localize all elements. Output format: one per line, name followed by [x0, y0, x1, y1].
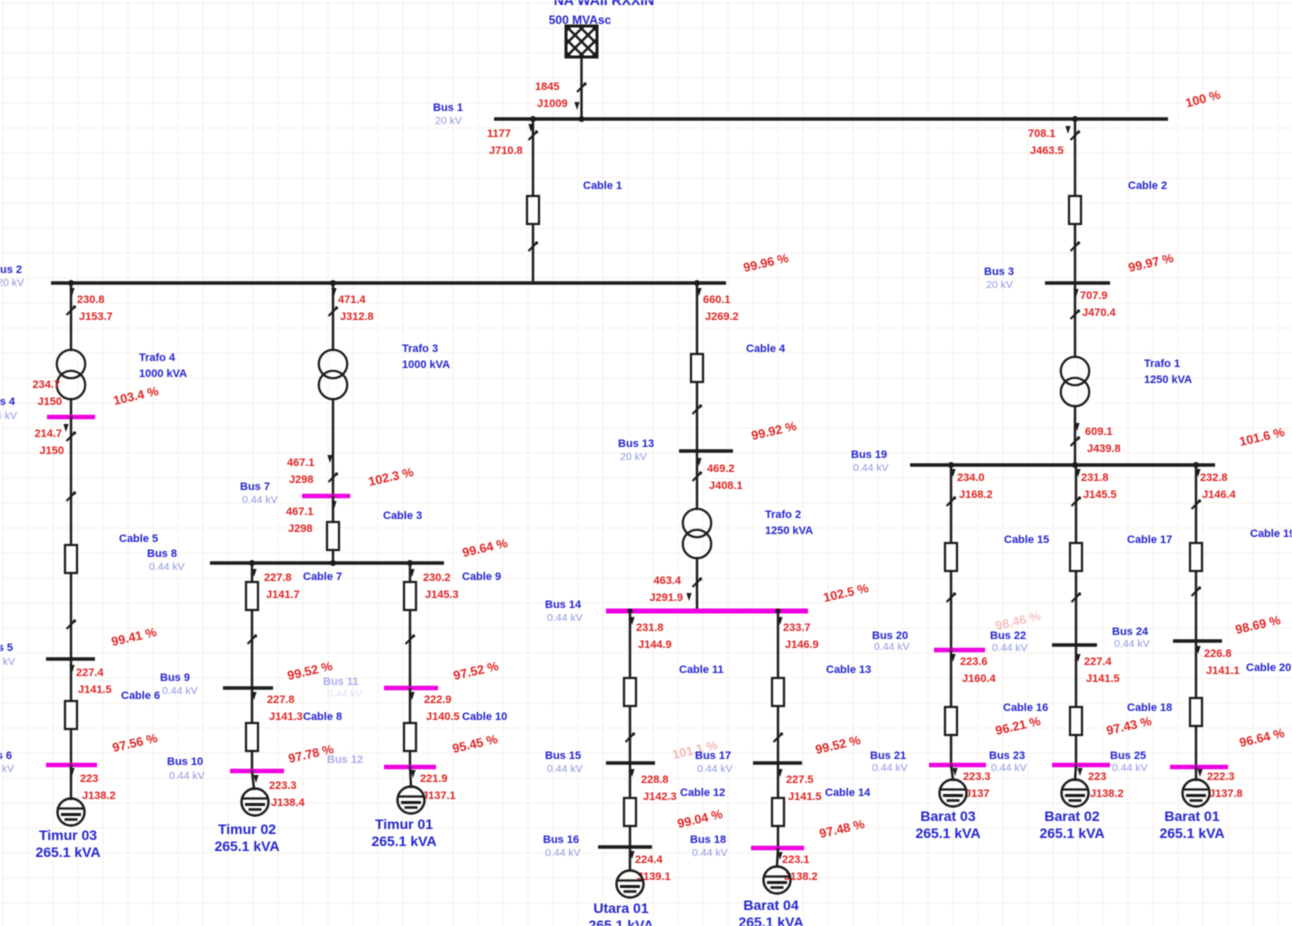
svg-text:Bus 22: Bus 22: [990, 630, 1026, 642]
wire Bus 17 to Cable 14: [777, 763, 779, 812]
external grid symbol: [527, 26, 688, 57]
svg-text:Bus 17: Bus 17: [695, 750, 731, 762]
svg-text:J291.9: J291.9: [649, 592, 683, 604]
cable Cable 15: [945, 543, 957, 571]
wire Trafo 2 to Bus 14: [696, 558, 698, 611]
wire Bus 3 stub: [1074, 283, 1076, 292]
svg-text:223: 223: [1088, 771, 1106, 783]
svg-text:Bus 3: Bus 3: [984, 266, 1014, 278]
svg-text:Bus 14: Bus 14: [545, 599, 582, 611]
svg-text:J141.3: J141.3: [269, 711, 303, 723]
bus Bus 7 (0.44 kV, overloaded): [302, 494, 350, 499]
flow arrow: [777, 852, 782, 860]
wire Bus 20 to Cable 16: [950, 650, 952, 721]
svg-text:J298: J298: [288, 523, 312, 535]
switch Trafo 3 HV: [329, 306, 339, 316]
svg-text:J150: J150: [38, 396, 62, 408]
svg-text:0.44 kV: 0.44 kV: [169, 770, 205, 782]
switch Cable 2 bottom: [1071, 241, 1081, 251]
svg-text:708.1: 708.1: [1028, 128, 1056, 140]
svg-text:233.7: 233.7: [783, 622, 811, 634]
wire Cable 12 to Bus 16: [629, 826, 631, 847]
wire Bus 21 to load: [951, 765, 953, 780]
flow arrow: [409, 569, 414, 577]
svg-text:265.1 kVA: 265.1 kVA: [1039, 825, 1104, 841]
svg-text:Trafo 4: Trafo 4: [139, 352, 176, 364]
svg-text:467.1: 467.1: [286, 506, 314, 518]
switch Cable 15 bottom: [947, 592, 957, 602]
svg-text:0.44 kV: 0.44 kV: [1114, 638, 1150, 650]
svg-text:J141.1: J141.1: [1206, 665, 1240, 677]
transformer Trafo 2 (1250 kVA): [683, 509, 711, 558]
svg-text:223.1: 223.1: [782, 854, 810, 866]
load Barat 01 (265.1 kVA): [1183, 780, 1210, 807]
bus Bus 20 (0.44 kV, overloaded): [934, 648, 985, 653]
cable Cable 8: [246, 723, 258, 751]
svg-text:Timur 02: Timur 02: [218, 821, 276, 837]
svg-text:Cable 19: Cable 19: [1250, 528, 1292, 540]
svg-text:0.44 kV: 0.44 kV: [327, 688, 363, 700]
svg-text:1250 kVA: 1250 kVA: [1144, 374, 1192, 386]
wire Bus 23 to load: [1075, 765, 1076, 780]
svg-text:J269.2: J269.2: [705, 311, 739, 323]
svg-text:0.44 kV: 0.44 kV: [0, 656, 15, 668]
svg-text:234.0: 234.0: [957, 472, 985, 484]
wire Bus 11 to Cable 10: [409, 688, 411, 737]
switch Trafo 3 LV: [329, 472, 339, 482]
svg-text:J141.5: J141.5: [788, 791, 822, 803]
bus Bus 1 (20 kV): [494, 117, 1168, 120]
svg-text:Cable 12: Cable 12: [680, 787, 725, 799]
switch below Bus 4: [67, 431, 77, 441]
wire Bus 16 to load: [629, 847, 631, 870]
svg-text:469.2: 469.2: [707, 463, 735, 475]
svg-text:Cable 13: Cable 13: [826, 664, 871, 676]
bus Bus 16 (0.44 kV): [598, 845, 652, 849]
bus Bus 8 (0.44 kV): [210, 561, 444, 564]
bus Bus 17 (0.44 kV): [753, 761, 802, 765]
flow arrow: [686, 593, 691, 601]
flow arrow: [409, 692, 414, 700]
svg-text:Cable 16: Cable 16: [1003, 702, 1048, 714]
svg-text:0.44 kV: 0.44 kV: [692, 847, 728, 859]
svg-text:J470.4: J470.4: [1082, 307, 1117, 319]
bus Bus 12 (0.44 kV, overloaded): [384, 765, 436, 770]
svg-text:Barat 01: Barat 01: [1164, 808, 1219, 824]
svg-text:J142.3: J142.3: [643, 791, 677, 803]
flow arrow: [69, 288, 74, 296]
flow arrow: [1075, 654, 1080, 662]
switch Trafo 2 HV: [693, 471, 703, 481]
svg-text:Timur 03: Timur 03: [39, 827, 97, 843]
cable Cable 1: [527, 196, 539, 224]
flow arrow: [950, 654, 955, 662]
flow arrow: [696, 288, 701, 296]
bus Bus 24 (0.44 kV): [1173, 639, 1222, 643]
wire Cable 13 run: [777, 611, 779, 763]
svg-text:Barat 02: Barat 02: [1044, 808, 1099, 824]
svg-text:NA WAII RXXIN: NA WAII RXXIN: [554, 0, 655, 8]
junction Bus 1 / Cable 2: [1072, 116, 1078, 122]
switch Trafo 4 HV: [67, 305, 77, 315]
svg-text:1177: 1177: [487, 128, 511, 140]
svg-text:J710.8: J710.8: [489, 145, 523, 157]
svg-text:J137: J137: [965, 788, 989, 800]
flow arrow: [1065, 126, 1070, 134]
bus Bus 2 (20 kV): [51, 281, 726, 284]
svg-text:Bus 5: Bus 5: [0, 642, 13, 654]
flow arrow: [251, 692, 256, 700]
bus Bus 11 (0.44 kV, overloaded): [384, 686, 438, 691]
svg-text:Cable 6: Cable 6: [121, 690, 160, 702]
svg-text:0.44 kV: 0.44 kV: [242, 494, 278, 506]
svg-text:1000 kVA: 1000 kVA: [402, 359, 450, 371]
svg-text:226.8: 226.8: [1204, 648, 1232, 660]
bus Bus 23 (0.44 kV, overloaded): [1052, 763, 1110, 768]
wire Bus 15 to Cable 12: [629, 763, 631, 812]
svg-text:J408.1: J408.1: [709, 480, 743, 492]
svg-text:0.44 kV: 0.44 kV: [547, 612, 583, 624]
switch Trafo 1 LV: [1071, 436, 1081, 446]
flow arrow: [528, 124, 533, 132]
bus Bus 22 (0.44 kV): [1052, 643, 1097, 647]
wire grid to Bus 1: [580, 57, 582, 119]
switch Cable 17 bottom: [1072, 592, 1082, 602]
cable Cable 6: [65, 701, 77, 729]
svg-text:265.1 kVA: 265.1 kVA: [35, 844, 100, 860]
svg-text:222.9: 222.9: [424, 694, 452, 706]
bus Bus 5 (0.44 kV): [46, 657, 95, 661]
wire Cable 7 run: [251, 563, 253, 688]
svg-text:0.44 kV: 0.44 kV: [853, 462, 889, 474]
svg-text:230.2: 230.2: [423, 572, 451, 584]
bus Bus 6 (0.44 kV, overloaded): [46, 763, 97, 768]
svg-text:J146.9: J146.9: [785, 639, 819, 651]
svg-text:1845: 1845: [535, 81, 559, 93]
svg-text:0.44 kV: 0.44 kV: [1112, 762, 1148, 774]
svg-text:Cable 4: Cable 4: [746, 343, 786, 355]
svg-text:471.4: 471.4: [338, 294, 366, 306]
svg-text:265.1 kVA: 265.1 kVA: [1159, 825, 1224, 841]
svg-text:Bus 8: Bus 8: [147, 548, 177, 560]
svg-text:Cable 1: Cable 1: [583, 180, 622, 192]
flow arrow: [253, 775, 258, 783]
svg-text:J137.8: J137.8: [1209, 788, 1243, 800]
flow arrow: [574, 102, 579, 110]
wire Bus 6 to load: [70, 765, 72, 799]
svg-text:J168.2: J168.2: [959, 489, 993, 501]
svg-text:Cable 8: Cable 8: [303, 711, 342, 723]
load Timur 03 (265.1 kVA): [58, 799, 85, 826]
flow arrow: [629, 617, 634, 625]
svg-text:Bus 1: Bus 1: [433, 102, 463, 114]
svg-text:J1009: J1009: [537, 98, 568, 110]
svg-text:0.44 kV: 0.44 kV: [872, 762, 908, 774]
wire Cable 11 run: [629, 611, 631, 763]
svg-text:Bus 10: Bus 10: [167, 756, 203, 768]
wire Trafo 1 to Bus 19: [1074, 406, 1076, 465]
switch Cable 5 top: [67, 491, 77, 501]
svg-text:J150: J150: [40, 445, 64, 457]
svg-text:J463.5: J463.5: [1030, 145, 1064, 157]
svg-text:265.1 kVA: 265.1 kVA: [214, 838, 279, 854]
svg-text:0.44 kV: 0.44 kV: [874, 641, 910, 653]
cable Cable 7: [246, 582, 258, 610]
svg-text:Cable 9: Cable 9: [462, 571, 501, 583]
flow arrow: [331, 501, 336, 509]
flow arrow: [1073, 289, 1078, 297]
switch Cable 19 bottom: [1192, 586, 1202, 596]
flow arrow: [1074, 423, 1079, 431]
load Timur 01 (265.1 kVA): [398, 787, 425, 814]
wire Cable 20 to Bus 25: [1195, 726, 1197, 767]
bus Bus 10 (0.44 kV, overloaded): [230, 769, 284, 774]
svg-text:223.3: 223.3: [269, 780, 297, 792]
bus Bus 9 (0.44 kV): [223, 686, 273, 690]
wire Cable 15 run: [950, 465, 952, 650]
cable Cable 14: [772, 798, 784, 826]
svg-text:Bus 19: Bus 19: [851, 449, 887, 461]
wire Bus 2 to Trafo 4: [70, 283, 72, 350]
wire Cable 14 to Bus 18: [777, 826, 779, 848]
cable Cable 5: [65, 545, 77, 573]
junction Bus 19 / Cable 19: [1193, 462, 1199, 468]
svg-text:J138.4: J138.4: [271, 797, 306, 809]
svg-text:463.4: 463.4: [653, 575, 681, 587]
svg-text:J144.9: J144.9: [638, 639, 672, 651]
svg-text:Bus 4: Bus 4: [0, 396, 16, 408]
svg-text:Barat 03: Barat 03: [920, 808, 975, 824]
svg-text:J141.5: J141.5: [78, 684, 112, 696]
wire Bus 13 to Trafo 2: [696, 451, 698, 509]
switch Cable 4 bottom: [693, 404, 703, 414]
svg-text:227.8: 227.8: [267, 694, 295, 706]
wire Cable 17 run: [1075, 465, 1077, 660]
wire Cable 6 to Bus 6: [70, 729, 72, 765]
svg-text:20 kV: 20 kV: [435, 115, 462, 127]
flow arrow: [1197, 769, 1202, 777]
svg-text:Cable 3: Cable 3: [383, 510, 422, 522]
wire Cable 1 run: [532, 119, 534, 283]
switch Cable 1 top: [529, 130, 539, 140]
svg-text:Bus 7: Bus 7: [240, 481, 270, 493]
bus Bus 4 (0.44 kV, overloaded): [47, 415, 95, 420]
switch Cable 13 bottom: [774, 732, 784, 742]
svg-text:J138.2: J138.2: [82, 790, 116, 802]
svg-text:J141.5: J141.5: [1086, 673, 1120, 685]
wire Bus 22 to Cable 18: [1075, 660, 1077, 721]
svg-text:Bus 11: Bus 11: [323, 676, 358, 688]
flow arrow: [69, 665, 74, 673]
transformer Trafo 3 (1000 kVA): [319, 350, 347, 399]
wire Cable 8 to Bus 10: [251, 751, 253, 771]
flow arrow: [331, 288, 336, 296]
svg-text:0.44 kV: 0.44 kV: [697, 763, 733, 775]
svg-text:223: 223: [80, 773, 98, 785]
wire Bus 24 to Cable 20: [1195, 641, 1197, 712]
junction Bus 2 / Cable 4: [694, 280, 700, 286]
load Barat 04 (265.1 kVA): [764, 867, 791, 894]
svg-text:227.4: 227.4: [76, 667, 104, 679]
cable Cable 9: [404, 582, 416, 610]
svg-text:228.8: 228.8: [641, 774, 669, 786]
svg-text:223.3: 223.3: [963, 771, 991, 783]
svg-text:265.1 kVA: 265.1 kVA: [371, 833, 436, 849]
switch Trafo 2 LV: [693, 577, 703, 587]
flow arrow: [327, 455, 332, 463]
cable Cable 13: [772, 678, 784, 706]
svg-text:J145.3: J145.3: [425, 589, 459, 601]
svg-text:Cable 2: Cable 2: [1128, 180, 1167, 192]
svg-text:Cable 18: Cable 18: [1127, 702, 1172, 714]
svg-text:Bus 9: Bus 9: [160, 672, 190, 684]
svg-text:609.1: 609.1: [1085, 426, 1113, 438]
svg-text:234.7: 234.7: [32, 379, 60, 391]
svg-text:Bus 15: Bus 15: [545, 750, 581, 762]
cable Cable 12: [624, 798, 636, 826]
wire Bus 4 to Cable 5: [70, 417, 72, 545]
svg-text:Bus 23: Bus 23: [989, 750, 1025, 762]
flow arrow: [952, 768, 957, 776]
svg-text:Cable 14: Cable 14: [825, 787, 871, 799]
svg-text:Bus 12: Bus 12: [327, 754, 363, 766]
svg-text:Bus 24: Bus 24: [1112, 626, 1149, 638]
wire Cable 3 to Bus 8: [332, 550, 334, 563]
load Utara 01 (265.1 kVA): [617, 871, 644, 898]
junction Bus 1 / Cable 1: [530, 116, 536, 122]
svg-text:265.1 kVA: 265.1 kVA: [915, 825, 980, 841]
svg-text:Barat 04: Barat 04: [743, 897, 798, 913]
flow arrow: [1195, 646, 1200, 654]
junction Bus 2 / Trafo 4: [68, 280, 74, 286]
cable Cable 18: [1070, 707, 1082, 735]
svg-text:1250 kVA: 1250 kVA: [765, 525, 813, 537]
svg-text:227.8: 227.8: [264, 572, 292, 584]
bus Bus 14 (0.44 kV, overloaded): [606, 609, 808, 614]
switch Trafo 1 HV: [1071, 309, 1081, 319]
transformer Trafo 1 (1250 kVA): [1061, 357, 1089, 406]
svg-text:0.44 kV: 0.44 kV: [991, 762, 1027, 774]
svg-text:0.44 kV: 0.44 kV: [545, 847, 581, 859]
flow arrow: [950, 469, 955, 477]
svg-text:20 kV: 20 kV: [986, 279, 1013, 291]
svg-text:J160.4: J160.4: [962, 673, 997, 685]
svg-text:Utara 01: Utara 01: [593, 900, 648, 916]
svg-text:Trafo 2: Trafo 2: [765, 509, 801, 521]
wire Cable 10 to Bus 12: [409, 751, 411, 767]
wire Cable 19 run: [1195, 465, 1197, 641]
flow arrow: [410, 770, 415, 778]
bus Bus 13 (20 kV): [679, 449, 733, 453]
svg-text:221.9: 221.9: [420, 773, 448, 785]
junction Bus 14 / Cable 11: [627, 608, 632, 613]
wire Cable 5 to Bus 5: [70, 573, 72, 659]
svg-text:J137.1: J137.1: [422, 790, 456, 802]
switch Cable 15 top: [947, 496, 957, 506]
wire Bus 25 to load: [1195, 767, 1197, 780]
cable Cable 20: [1190, 698, 1202, 726]
junction Bus 1 / grid: [579, 116, 585, 122]
wire Bus 10 to load: [252, 771, 254, 789]
load Timur 02 (265.1 kVA): [242, 789, 269, 816]
svg-text:1000 kVA: 1000 kVA: [139, 368, 187, 380]
cable Cable 4: [691, 354, 703, 382]
wire Cable 18 to Bus 23: [1075, 735, 1077, 765]
wire Bus 3 to Trafo 1: [1074, 292, 1076, 357]
transformer Trafo 4 (1000 kVA): [57, 350, 85, 399]
switch Cable 9 bottom: [406, 634, 416, 644]
svg-text:Cable 5: Cable 5: [119, 533, 158, 545]
svg-text:J439.8: J439.8: [1087, 443, 1121, 455]
wire Cable 2 run: [1074, 119, 1076, 283]
wire Trafo 3 to Bus 7: [332, 399, 334, 494]
flow arrow: [696, 458, 701, 466]
junction Bus 14 / Cable 13: [775, 608, 780, 613]
svg-text:J145.5: J145.5: [1083, 489, 1117, 501]
junction Bus 2 / Trafo 3: [330, 280, 336, 286]
flow arrow: [777, 617, 782, 625]
svg-text:J141.7: J141.7: [266, 589, 300, 601]
svg-text:Cable 7: Cable 7: [303, 571, 342, 583]
svg-text:20 kV: 20 kV: [620, 451, 647, 463]
svg-text:224.4: 224.4: [635, 854, 663, 866]
flow arrow: [1075, 469, 1080, 477]
bus Bus 19 (0.44 kV): [910, 463, 1215, 466]
svg-text:J140.5: J140.5: [426, 711, 460, 723]
load Barat 02 (265.1 kVA): [1062, 780, 1089, 807]
svg-text:265.1 kVA: 265.1 kVA: [588, 917, 653, 926]
cable Cable 3: [327, 522, 339, 550]
svg-text:0.44 kV: 0.44 kV: [0, 410, 17, 422]
svg-text:223.6: 223.6: [960, 656, 988, 668]
switch Cable 11 bottom: [626, 732, 636, 742]
svg-text:660.1: 660.1: [703, 294, 731, 306]
svg-text:0.44 kV: 0.44 kV: [547, 763, 583, 775]
svg-text:Trafo 3: Trafo 3: [402, 343, 438, 355]
junction Bus 8 / Cable 3: [330, 560, 336, 566]
cable Cable 16: [945, 707, 957, 735]
switch Cable 1 bottom: [529, 241, 539, 251]
svg-text:Bus 16: Bus 16: [543, 834, 579, 846]
svg-text:Trafo 1: Trafo 1: [1144, 358, 1180, 370]
wire Bus 18 to load: [777, 848, 778, 866]
svg-text:0.44 kV: 0.44 kV: [162, 685, 198, 697]
cable Cable 2: [1069, 196, 1081, 224]
cable Cable 19: [1190, 543, 1202, 571]
switch Cable 7 bottom: [248, 634, 258, 644]
wire Bus 5 to Cable 6: [70, 659, 72, 715]
svg-text:231.8: 231.8: [636, 622, 664, 634]
junction Bus 8 / Cable 7: [249, 560, 255, 566]
flow arrow: [629, 769, 634, 777]
wire Trafo 4 to Bus 4: [70, 399, 72, 417]
svg-text:Bus 21: Bus 21: [870, 750, 906, 762]
wire Cable 4 run: [696, 283, 698, 451]
svg-text:J146.4: J146.4: [1202, 489, 1237, 501]
svg-text:214.7: 214.7: [34, 428, 62, 440]
svg-text:Cable 11: Cable 11: [679, 664, 724, 676]
switch grid feeder: [577, 82, 587, 92]
cable Cable 17: [1070, 543, 1082, 571]
switch Cable 5 bottom: [67, 619, 77, 629]
wire Cable 16 to Bus 21: [950, 735, 952, 765]
bus Bus 15 (0.44 kV): [606, 761, 655, 765]
svg-text:Cable 10: Cable 10: [462, 711, 507, 723]
load Barat 03 (265.1 kVA): [940, 780, 967, 807]
flow arrow: [777, 769, 782, 777]
svg-text:227.5: 227.5: [786, 774, 814, 786]
svg-text:232.8: 232.8: [1200, 472, 1228, 484]
